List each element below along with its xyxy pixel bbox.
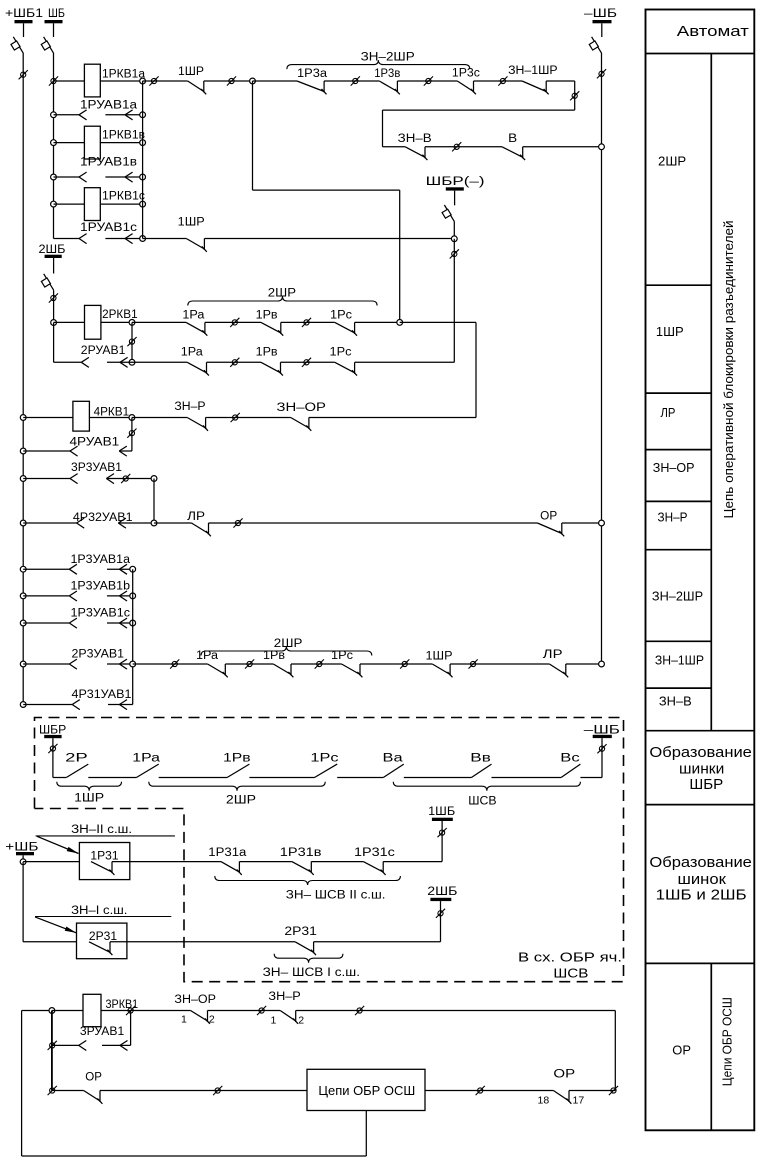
wire ShBR breaker to node [453,221,455,238]
breaker on +ShB1 [11,37,23,53]
bus 2ShB dashed bar [430,898,451,901]
svg-text:1Р3в: 1Р3в [374,68,400,80]
terminal OR row right [609,1086,618,1095]
wire LR to OR [209,522,538,524]
contact 1R31s [363,862,385,875]
svg-text:Ва: Ва [383,752,404,764]
wire node to contact 1ShR [143,80,188,82]
node top row branch [250,78,256,84]
wire to plug contact 4R32UAV1 left [23,522,76,524]
svg-text:ОР: ОР [540,511,557,523]
terminal row3 v-s [315,659,324,668]
svg-text:1Р3УАВ1b: 1Р3УАВ1b [71,581,131,593]
contact 1ShR second [186,239,207,252]
node 2ShB at coil row [51,320,57,326]
bus -ShB dashed bar [593,735,612,738]
node bus A 1R3UAV1b [20,593,26,599]
terminal on 2ShB stem [436,909,445,918]
wire box to contact OR bottom right [425,1090,553,1092]
node bus A 1R3UAV1c [20,620,26,626]
node bus B coil row v [51,140,57,146]
contact inside 2R31 [89,942,112,955]
node bus A at 4R32UAV1 row [20,520,26,526]
relay coil 2RKV1 [85,305,101,339]
terminal after LR [233,518,242,527]
svg-text:В сх. ОБР яч.: В сх. ОБР яч. [518,949,622,964]
svg-text:ЗН–II с.ш.: ЗН–II с.ш. [71,824,132,836]
box Tsepi OBR OSSh [307,1069,425,1110]
svg-text:1ШБ и 2ШБ: 1ШБ и 2ШБ [656,886,747,903]
svg-text:ШБ: ШБ [48,8,65,20]
bracket 2ShR row1 [188,297,377,306]
bus +ShB1 bar [15,20,33,23]
svg-text:2Р3УАВ1: 2Р3УАВ1 [72,649,125,661]
wire 1Ra to 1Rv row1 [205,321,261,323]
plug contact 4R32UAV1 left [77,518,85,528]
terminal between 1R3v and 1R3s [424,76,433,85]
contact ZN-OR [291,418,312,431]
wire to plug contact 2RUAV1 left [54,361,82,363]
plug contact 3R3UAV1 left [70,474,78,484]
contact 1R3a [297,81,327,94]
plug contact 1RUAV1v right [125,172,133,182]
wire 1Rv to 1Rs row3 [291,663,342,665]
wire to plug contact 1RUAV1a left [54,114,80,116]
plug contact 1R3UAV1a left [69,564,77,574]
svg-text:ЗН–1ШР: ЗН–1ШР [508,65,558,77]
svg-text:ЗН–ОР: ЗН–ОР [174,994,216,1006]
svg-text:ЛР: ЛР [661,405,676,420]
terminal row3 start [170,659,179,668]
svg-text:1Ра: 1Ра [182,310,205,322]
svg-text:2РУАВ1: 2РУАВ1 [81,345,126,357]
wire 1ShR row3 to LR [450,663,549,665]
wire 1R3v to 1R3s [397,80,457,82]
bus ShBR bar [44,735,61,738]
wire to contact OR bottom left [52,1090,84,1092]
svg-text:Автомат: Автомат [677,23,749,40]
svg-text:4Р32УАВ1: 4Р32УАВ1 [73,512,133,524]
wire ZN-1ShR to corner [546,80,575,82]
wire coil 1RKV1v to node [100,142,142,144]
bus -ShB stem [601,23,603,37]
wire 2ShB node down [53,323,55,363]
wire 1Ra to 1Rv row2 [207,361,262,363]
contact 1Rv row2 [261,362,283,375]
wire OR right to corner [569,1090,615,1092]
relay coil 1RKV1v [84,126,100,159]
contact Vv [471,764,491,777]
svg-text:1ШР: 1ШР [74,793,104,805]
wire 1R31a to 1R31v [239,861,291,863]
node 2RUAV1 row [129,359,135,365]
wire down to ZN-V row [382,110,384,147]
relay coil 1RKV1a [84,64,100,97]
wire branch horizontal [253,189,400,191]
wire Vs to -ShB corner [580,777,602,779]
terminal row1 a-v [230,318,239,327]
terminal on bus B [49,76,58,85]
wire coil 1RKV1s to node [100,203,142,205]
svg-text:Вс: Вс [560,752,580,764]
svg-text:ОР: ОР [672,1043,691,1058]
wire right corner down to ZN row [475,322,477,417]
wire node to coil 3RKV1 [52,1010,83,1012]
wire 1Rv to 1Rs row1 [281,321,335,323]
wire to 2R31 box [23,941,89,943]
terminal after 1ShR [227,76,236,85]
wire LR row3 to -ShB [566,663,602,665]
wire plug contact 1R3UAV1a right [107,568,133,570]
svg-text:ЗН– ШСВ II с.ш.: ЗН– ШСВ II с.ш. [286,890,386,902]
wire ZN-V to V [425,146,502,148]
dashed boundary of ShSV bay box [35,718,624,982]
svg-text:1РКВ1в: 1РКВ1в [102,130,145,142]
svg-text:ЗН–В: ЗН–В [398,133,432,145]
underline ZN-II s.sh. [36,835,175,837]
wire branch down to 2RKV1 row [399,190,401,322]
wire node to contact 1R3a [253,80,298,82]
contact 1ShR [188,81,207,94]
svg-text:Цепи ОБР ОСШ: Цепи ОБР ОСШ [318,1083,415,1098]
node at 3RKV1 input [49,1008,55,1014]
terminal on ShBR stem [48,744,57,753]
terminal below 2RKV1 node [127,337,136,346]
terminal at 3RKV1 branch [126,1006,135,1015]
wire 2RKV1 node down [131,322,133,362]
svg-text:ЗН–I с.ш.: ЗН–I с.ш. [71,905,127,917]
table row lines [646,53,755,55]
svg-text:1Ра: 1Ра [132,752,160,764]
relay box 2R31 [77,923,127,959]
plug contact 4R32UAV1 right [118,518,126,528]
svg-text:шинки: шинки [679,760,724,777]
plug contact 1R3UAV1a right [119,564,127,574]
svg-text:Цепь оперативной блокировки: Цепь оперативной блокировки разъединител… [722,220,736,518]
contact 1Rv shsv [227,764,249,777]
svg-text:1: 1 [271,1015,277,1027]
wire V to -ShB bus [523,146,602,148]
bus 1ShB stem [53,23,55,37]
svg-text:1ШР: 1ШР [178,66,204,78]
terminal before 1ShR [149,76,158,85]
wire +ShB node down [22,862,24,942]
svg-text:ОР: ОР [85,1071,102,1083]
node at coil 1RKV1a output [140,78,146,84]
wire to plug contact 1RUAV1s left [54,238,80,240]
plug contact 1RUAV1s right [125,234,133,244]
wire ShBR vertical to 2RUAV1 row [453,239,455,362]
underline ZN-I s.sh. [35,916,171,918]
svg-text:1Ра: 1Ра [181,347,204,359]
node at coil 4RKV1 output [129,415,135,421]
arrow to 2R31 box [35,917,77,933]
wire 3RUAV1 up to coil row [130,1011,132,1046]
terminal on -ShB wire [597,69,606,78]
node column row s bottom [140,236,146,242]
wire ZN-R to ZN-OR [206,417,291,419]
svg-text:ЗН–2ШР: ЗН–2ШР [652,589,703,604]
node column coil row v [140,140,146,146]
contact ZN-R bottom [280,1011,298,1024]
relay box 1R31 [79,843,129,880]
svg-text:1Р3УАВ1а: 1Р3УАВ1а [71,554,131,566]
wire node to contact 1Ra row3 [133,663,208,665]
wire 4RKV1 node down [131,418,133,452]
wire OR to -ShB bus [562,522,602,524]
wire 1Rv to 1Rs row2 [281,361,335,363]
contact OR [537,523,564,536]
terminal row3 a-v [245,659,254,668]
table column divider lower [710,963,712,1130]
wire 1R31s to 1ShB corner [383,861,442,863]
bracket 2ShR shsv [149,782,325,791]
svg-text:–ШБ: –ШБ [584,725,620,737]
wire 2ShB breaker down [53,290,55,322]
wire 1Rs row3 to 1ShR [360,663,432,665]
wire box bottom stub [365,1111,367,1157]
node bus A 4R31UAV1 [20,702,26,708]
bracket 2ShR row3 [201,647,372,656]
wire Vv to Vs [492,777,562,779]
node column 1R3UAV1a [130,566,136,572]
wire to plug contact 2R3UAV1 left [23,663,69,665]
terminal below 4RKV1 node [127,429,136,438]
contact 1R3v [379,81,400,94]
terminal 3RUAV1 row [48,1041,57,1050]
terminal ZN-OR to ZN-R bottom [257,1006,266,1015]
svg-text:1ШР: 1ШР [656,324,684,339]
svg-text:1Рс: 1Рс [330,310,352,322]
svg-text:Образование: Образование [649,744,752,761]
node column 1R3UAV1b [130,593,136,599]
contact 1Ra shsv [136,764,158,777]
wire node to contact LR [154,522,192,524]
wire Va to Vv [404,777,472,779]
svg-text:1Р3с: 1Р3с [452,68,480,80]
node ShBR at 1ShR row [451,236,457,242]
terminal row2 v-s [302,358,311,367]
contact ZN-1ShR [522,81,549,94]
contact 1R31v [292,862,314,875]
svg-text:ШСВ: ШСВ [553,966,588,981]
contact ZN-R [187,418,208,431]
contact Va [383,764,404,777]
contact 1Rs row2 [335,362,357,375]
wire bus A to coil 4RKV1 [23,417,73,419]
contact 1Rv row1 [261,322,283,335]
plug contact 2RUAV1 left [81,357,89,367]
bus 2ShB bar [45,255,62,258]
wire to plug contact 1R3UAV1c left [23,622,69,624]
svg-text:3Р3УАВ1: 3Р3УАВ1 [71,462,122,474]
svg-text:+ШБ: +ШБ [5,842,38,854]
svg-text:1РКВ1а: 1РКВ1а [102,69,146,81]
svg-text:ЗН–ОР: ЗН–ОР [277,402,327,414]
bus A vertical wire (+ShB1) [22,53,24,705]
plug contact 4R31UAV1 left [72,700,80,710]
relay coil 4RKV1 [73,401,90,431]
svg-text:18: 18 [538,1095,550,1107]
node 4R32UAV1 right [151,520,157,526]
breaker on 1ShB [41,37,53,53]
svg-text:1Р3а: 1Р3а [297,68,328,80]
contact 1Rv row3 [273,664,293,677]
right column vertical rows a-c [132,569,134,704]
wire plug contact 1RUAV1a right [105,114,142,116]
wire plug contact 4R32UAV1 right [118,522,154,524]
node column 1R3UAV1c [130,620,136,626]
bus -ShB dashed stem down [601,738,603,777]
contact inside 1R31 [91,862,114,875]
bus +ShB1 stem [23,23,25,37]
wire right corner down [614,1011,616,1091]
plug contact 2R3UAV1 left [69,659,77,669]
svg-text:1РУАВ1а: 1РУАВ1а [80,100,138,112]
wire plug contact 1R3UAV1b right [107,595,133,597]
bus B vertical wire (1ShB) [53,53,55,239]
svg-text:ШСВ: ШСВ [468,796,497,808]
wire to plug contact 4RUAV1 left [23,450,70,452]
wire 1ShR to node [204,80,253,82]
terminal on 1ShB stem [438,828,447,837]
terminal before OBR OSSh box [213,1086,222,1095]
wire plug contact 4RUAV1 right [119,450,132,452]
node bus A 2R3UAV1 [20,661,26,667]
wire to plug contact 3RUAV1 left [52,1044,79,1046]
svg-text:1Р3УАВ1с: 1Р3УАВ1с [71,608,131,620]
plug contact 1R3UAV1b right [119,591,127,601]
svg-text:ЗН–ОР: ЗН–ОР [653,460,695,475]
node bus A at 4RUAV1 row [20,448,26,454]
svg-text:ШБР: ШБР [39,725,67,737]
svg-text:Цепи ОБР ОСШ: Цепи ОБР ОСШ [721,997,735,1086]
wire 1ShB vertical [441,821,443,862]
node row1 at branch [397,320,403,326]
svg-text:ШБР: ШБР [689,776,723,793]
wire 1Rs to Va [337,777,383,779]
plug contact 4RUAV1 left [70,446,78,456]
svg-text:–ШБ: –ШБ [584,8,617,20]
terminal row2 a-v [230,358,239,367]
bus -ShB vertical wire [601,53,603,664]
plug contact 1R3UAV1b left [69,591,77,601]
svg-text:1Рв: 1Рв [256,347,278,359]
terminal row1 v-s [302,318,311,327]
wire branch node down [252,81,254,190]
wire 3RKV1 node down [51,1011,53,1091]
wire loop top left [22,1010,52,1012]
terminal after ZN-R bottom [355,1006,364,1015]
plug contact 1R3UAV1c right [119,618,127,628]
bracket 1ShR shsv [57,782,122,791]
terminal on -ShB dashed stem [597,744,606,753]
terminal between 1R3a and 1R3v [351,76,360,85]
node at coil 2RKV1 output [129,320,135,326]
bus +ShB bottom bar [16,852,34,855]
contact 2R31 [295,942,316,955]
svg-text:1РУАВ1в: 1РУАВ1в [80,157,137,169]
wire plug contact 1RUAV1v right [105,176,142,178]
svg-text:17: 17 [573,1095,585,1107]
bus ShBR(-) stem [454,191,456,206]
terminal on 2ShB wire [49,293,58,302]
contact 1ShR row3 [432,664,452,677]
svg-text:2ШБ: 2ШБ [427,886,457,898]
node bus A at 4RKV1 row [20,415,26,421]
svg-text:1Рс: 1Рс [310,752,338,764]
wire 1R3s to ZN-1ShR [474,80,523,82]
wire to contact ZN-V [383,146,406,148]
contact OR bottom left [84,1091,103,1104]
bus -ShB bar [593,20,612,23]
svg-text:1Рс: 1Рс [330,347,352,359]
plug contact 2R3UAV1 right [119,659,127,669]
svg-text:1ШБ: 1ШБ [428,806,455,818]
wire to plug contact 1R3UAV1a left [23,568,69,570]
node bus A at 3R3UAV1 row [20,476,26,482]
wire horizontal to ZN-V row [383,109,575,111]
terminal before ZN-1ShR [498,76,507,85]
node column 2R3UAV1 [130,661,136,667]
plug contact 1RUAV1a left [79,110,87,120]
svg-text:2ШР: 2ШР [226,795,256,807]
terminal below ShBR node [450,249,459,258]
contact 1Ra row3 [208,664,228,677]
wire node to contact ZN-R [132,417,187,419]
terminal ZN-R to ZN-OR [231,413,240,422]
svg-text:ЛР: ЛР [187,511,205,523]
contact 1Rs row1 [335,322,357,335]
node bus A 1R3UAV1a [20,566,26,572]
svg-text:2Р31: 2Р31 [284,926,317,938]
wire ZN-OR to ZN-R bottom [208,1010,281,1012]
bracket ZN-ShSV II s.sh. [215,876,401,885]
node on -ShB wire at OR row [599,520,605,526]
contact LR [192,523,211,536]
terminal on bus A [19,70,28,79]
svg-text:2: 2 [298,1015,304,1027]
svg-text:1Р31в: 1Р31в [280,847,322,859]
wire coil 4RKV1 to node [89,417,131,419]
contact 1Ra row1 [186,322,207,335]
contact 1R3s [457,81,476,94]
wire bus B to coil 1RKV1a [54,80,85,82]
svg-text:2Р31: 2Р31 [89,931,117,943]
svg-text:+ШБ1: +ШБ1 [5,8,43,20]
svg-text:1Рв: 1Рв [223,752,251,764]
svg-text:1РУАВ1с: 1РУАВ1с [80,222,137,234]
wire 1Rs row1 to branch node [355,321,400,323]
svg-text:ШБР(–): ШБР(–) [426,176,485,188]
wire 1Ra to 1Rv shsv [159,777,227,779]
terminal on ZN-1ShR drop wire [570,91,579,100]
wire 2ShB vertical [440,901,442,942]
wire to plug contact 4R31UAV1 left [23,704,72,706]
wire loop bottom [22,1155,367,1157]
plug contact 3R3UAV1 right [106,474,114,484]
contact ZN-OR bottom [191,1011,210,1024]
svg-text:ЗН–2ШР: ЗН–2ШР [361,52,415,64]
svg-text:4Р31УАВ1: 4Р31УАВ1 [72,689,132,701]
svg-text:ЗН– ШСВ I с.ш.: ЗН– ШСВ I с.ш. [263,967,360,979]
wire bus B to coil 1RKV1v [54,142,85,144]
wire plug contact 2R3UAV1 right [107,663,133,665]
svg-text:ОР: ОР [553,1068,575,1080]
svg-text:2ШР: 2ШР [658,153,686,168]
contact LR row3 [549,664,568,677]
svg-text:4РКВ1: 4РКВ1 [94,407,130,419]
